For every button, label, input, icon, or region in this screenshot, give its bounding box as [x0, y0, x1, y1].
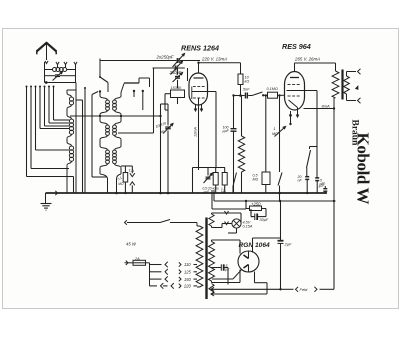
svg-text:2x250pF: 2x250pF	[156, 55, 174, 60]
tuning transformer T2	[100, 121, 108, 125]
svg-text:15340: 15340	[171, 86, 182, 90]
svg-text:T.A: T.A	[128, 169, 134, 173]
svg-text:250pF: 250pF	[169, 70, 182, 75]
power transformer HV winding	[209, 242, 215, 282]
power transformer pilot winding	[209, 214, 214, 226]
ground	[55, 191, 57, 195]
antenna	[37, 43, 57, 52]
svg-text:0,1MΩ: 0,1MΩ	[267, 87, 278, 91]
svg-text:MΩ: MΩ	[118, 182, 124, 186]
supply rail wire	[214, 200, 336, 202]
svg-text:MΩ: MΩ	[221, 190, 226, 194]
svg-text:kΩ: kΩ	[245, 80, 250, 84]
svg-text:8mA: 8mA	[322, 104, 331, 109]
wire output down	[333, 98, 335, 201]
wire oscillator link	[70, 115, 161, 117]
svg-text:RENS 1264: RENS 1264	[181, 43, 219, 52]
tone switch	[316, 91, 318, 178]
svg-text:110: 110	[184, 262, 191, 267]
svg-text:nF: nF	[298, 179, 303, 183]
wire (AVC line)	[84, 87, 86, 89]
capacitor 5µF	[220, 267, 222, 269]
band coil L2	[67, 89, 76, 91]
detector trimmer	[193, 167, 226, 169]
resistor 4000Ω	[213, 173, 218, 186]
svg-text:RES 964: RES 964	[282, 42, 311, 51]
tube RENS 1264	[189, 73, 208, 105]
svg-text:0,1: 0,1	[117, 176, 123, 182]
svg-text:125: 125	[184, 270, 192, 275]
band selector switch wires	[26, 86, 28, 88]
svg-text:30µF: 30µF	[260, 218, 269, 222]
speaker terminals	[358, 69, 361, 75]
band coil taps wiring	[75, 83, 77, 194]
power transformer filament winding	[209, 284, 214, 295]
voltage selector	[149, 263, 151, 286]
antenna coil L1	[56, 62, 59, 65]
resistor (detector)	[222, 173, 227, 186]
svg-text:45 W: 45 W	[126, 242, 137, 247]
svg-text:2µF: 2µF	[284, 242, 293, 247]
resistor 10kΩ	[238, 74, 243, 85]
svg-text:µµF: µµF	[223, 129, 230, 133]
power transformer primary	[196, 226, 203, 287]
svg-text:12mA: 12mA	[194, 127, 198, 137]
svg-text:RGN 1064: RGN 1064	[239, 242, 270, 249]
switch (pickup/radio)	[252, 92, 263, 96]
svg-text:150: 150	[184, 277, 192, 282]
wire (cathode line)	[91, 95, 93, 178]
capacitor 2µF	[280, 201, 282, 240]
fuse 2A	[126, 261, 128, 265]
svg-text:0,15A: 0,15A	[243, 225, 253, 229]
svg-text:220: 220	[183, 284, 192, 289]
antenna trimmer capacitor	[55, 74, 60, 76]
tuning transformer T3	[100, 146, 108, 150]
resistor 0.1MΩ (TA)	[123, 173, 128, 183]
switch (feedback)	[279, 96, 281, 173]
wire right column down	[333, 201, 335, 289]
power transformer core	[205, 218, 207, 300]
svg-text:220 V. 13mA: 220 V. 13mA	[201, 57, 227, 62]
ground bus wire	[46, 192, 328, 194]
rectifier filament wiring	[233, 269, 242, 279]
tube RES 964	[285, 72, 305, 111]
pilot lamp	[214, 212, 241, 214]
wire T2 to gang	[118, 132, 154, 134]
wave switch S1	[99, 59, 101, 78]
bias rail wire	[212, 208, 246, 210]
mains input wire	[125, 220, 127, 225]
switch (detector)	[233, 173, 237, 187]
output transformer	[332, 71, 339, 98]
Feld field-coil connector	[281, 288, 294, 290]
svg-text:4000: 4000	[212, 187, 219, 191]
svg-text:Kobold W: Kobold W	[354, 133, 373, 205]
wire tube2 to output	[304, 108, 335, 110]
svg-text:265 V. 26mA: 265 V. 26mA	[294, 57, 320, 62]
svg-text:Feld: Feld	[300, 287, 309, 292]
rectifier RGN 1064	[238, 251, 259, 272]
tuning transformer T1	[99, 93, 101, 97]
svg-text:1: 1	[273, 127, 275, 131]
resistor (grid leak)	[241, 96, 243, 137]
svg-text:5nF: 5nF	[243, 88, 250, 92]
antenna circuit wiring	[44, 62, 46, 83]
svg-text:MΩ: MΩ	[253, 178, 259, 182]
capacitor 5nF (tone)	[315, 177, 319, 179]
